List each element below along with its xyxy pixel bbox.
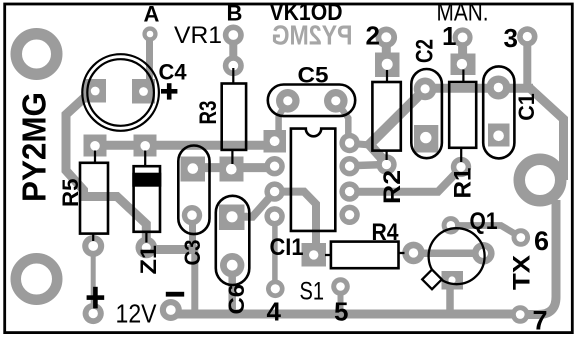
wire R4 right to Q1 collector xyxy=(414,249,484,257)
mounting hole top-left xyxy=(16,34,57,75)
pad C1 top xyxy=(486,76,510,100)
pad R3 top xyxy=(223,55,244,76)
svg-text:5: 5 xyxy=(334,297,348,327)
svg-text:C6: C6 xyxy=(224,284,249,315)
pad R4 right xyxy=(402,242,425,265)
resistor R2 outline xyxy=(372,82,400,151)
pad node A xyxy=(142,26,157,41)
wire node 3 to right rail xyxy=(530,88,564,180)
wire R5 bottom to plus pad xyxy=(91,246,96,314)
pad C3 top (square) xyxy=(181,157,206,182)
wire right rail to pad 7 xyxy=(521,200,556,315)
label plus symbol 12V xyxy=(87,295,105,300)
pad C3 bottom xyxy=(182,205,202,225)
pad C5 left xyxy=(276,89,300,113)
pad C4 minus (square) xyxy=(84,79,107,103)
pad R2 bottom xyxy=(376,154,396,174)
wire C2 top to R2 bottom pad xyxy=(370,90,425,164)
pad below 2 / R2 top (square) xyxy=(375,53,400,78)
pad 12V minus xyxy=(160,299,182,321)
label R3 xyxy=(195,101,222,125)
transistor Q1 outline xyxy=(429,228,485,284)
svg-text:12V: 12V xyxy=(116,299,158,329)
wire pad 3 down xyxy=(523,37,531,88)
svg-text:Z1: Z1 xyxy=(136,245,161,275)
pad 12V plus xyxy=(83,303,104,324)
pad Q1 base xyxy=(442,216,460,234)
mounting hole bottom-left xyxy=(16,258,58,300)
zener diode Z1 cathode band xyxy=(134,174,160,185)
wire ground bus xyxy=(171,310,520,319)
wire IC pin4 to pad 4 xyxy=(272,216,278,288)
wire pad 1 to R1 top pad xyxy=(458,37,467,56)
resistor R5 outline xyxy=(80,163,108,234)
capacitor C5 outline xyxy=(268,85,355,117)
pad C6 top (square) xyxy=(219,205,245,231)
svg-text:R1: R1 xyxy=(450,168,477,199)
IC CI1 outline with pin1 notch xyxy=(291,129,335,231)
pad node 7 xyxy=(511,305,530,324)
wire IC pin7 to R2 bottom xyxy=(350,165,387,166)
capacitor C6 outline xyxy=(216,196,250,285)
pad IC pin7 xyxy=(339,156,359,176)
pad Q1 emitter (square) xyxy=(442,271,464,290)
pad IC pin8 xyxy=(339,133,359,153)
wire pad 5 to ground bus xyxy=(338,287,344,311)
pad C2 top xyxy=(414,78,437,101)
wire C4 minus to Z1 bottom xyxy=(66,93,146,248)
capacitor C4 outline xyxy=(82,54,159,131)
svg-text:A: A xyxy=(144,2,160,27)
label plus symbol C4 xyxy=(161,89,177,94)
pad Q1 collector xyxy=(472,242,495,265)
svg-text:3: 3 xyxy=(504,23,518,53)
pad node 3 xyxy=(517,26,537,46)
svg-text:C3: C3 xyxy=(180,240,205,266)
label minus symbol xyxy=(166,292,184,297)
pad R3 bottom (square) xyxy=(220,157,244,182)
pad IC pin6 xyxy=(339,181,359,201)
label C6 xyxy=(224,284,249,315)
resistor R3 outline xyxy=(222,84,246,150)
pad C5 right xyxy=(324,89,348,113)
pad R5 top (square) xyxy=(84,135,107,157)
svg-text:Q1: Q1 xyxy=(470,208,498,235)
pad IC pin3 xyxy=(264,181,284,201)
pad IC pin1 (square) xyxy=(264,130,287,153)
pad C4 plus (square) xyxy=(132,79,155,104)
wire C2 top to C1 top to node 3 xyxy=(424,84,533,93)
pad C1 bottom (square) xyxy=(488,124,510,147)
wire C6 top to IC pin5 xyxy=(240,193,274,217)
svg-text:1: 1 xyxy=(442,21,456,51)
svg-text:4: 4 xyxy=(267,297,282,327)
pad node 2 xyxy=(376,27,398,49)
svg-text:7: 7 xyxy=(533,305,548,335)
pad IC pin2 xyxy=(264,156,284,176)
zener diode Z1 outline xyxy=(134,166,160,232)
label R1 xyxy=(450,168,477,199)
capacitor C3 outline xyxy=(178,146,209,235)
svg-text:VR1: VR1 xyxy=(174,22,222,49)
svg-text:CI1: CI1 xyxy=(270,234,304,261)
svg-text:6: 6 xyxy=(534,226,549,256)
pad node 1 xyxy=(453,27,473,47)
wire C3 bottom to ground bus xyxy=(193,215,195,314)
wire C5 right to IC pin8 xyxy=(336,101,349,142)
label TX xyxy=(509,255,536,290)
pad below 1 / R1 top (square) xyxy=(451,54,476,76)
resistor R4 outline xyxy=(331,242,399,269)
pad R4 left (square) xyxy=(302,243,327,267)
svg-text:R2: R2 xyxy=(379,170,406,204)
wire IC pin6 to R1 bottom xyxy=(350,168,461,192)
svg-text:PY2MG: PY2MG xyxy=(16,92,53,202)
wire A to C4 plus pad xyxy=(146,34,153,84)
wire C5 left to IC pin1 xyxy=(279,101,288,140)
svg-text:C2: C2 xyxy=(412,39,439,63)
wire Q1 emitter to ground bus xyxy=(446,283,454,313)
resistor R1 outline xyxy=(449,82,476,148)
pad node 5 S1 xyxy=(331,277,350,296)
label R2 xyxy=(379,170,406,204)
svg-text:C5: C5 xyxy=(298,63,329,88)
pad node B xyxy=(223,25,244,46)
pad Z1 bottom xyxy=(136,237,158,259)
pad R1 bottom xyxy=(451,157,471,177)
wire IC pin5 to R4 left xyxy=(275,192,316,254)
capacitor C1 outline xyxy=(483,66,514,158)
label R5 xyxy=(58,179,83,208)
svg-text:TX: TX xyxy=(509,255,536,290)
pad C2 bottom (square) xyxy=(414,125,438,153)
wire C3 top R3 bottom to IC pin2 xyxy=(193,163,274,172)
pad R5 bottom xyxy=(82,235,104,257)
svg-text:S1: S1 xyxy=(300,278,325,306)
wire Z1 bottom to ground via xyxy=(146,245,195,254)
svg-text:R3: R3 xyxy=(195,101,222,125)
pad Z1 top (square) xyxy=(134,135,157,157)
svg-text:R5: R5 xyxy=(58,179,83,208)
wire C6 bottom to ground bus xyxy=(228,265,236,313)
label PY2MG silkscreen xyxy=(16,92,53,202)
svg-text:2: 2 xyxy=(366,20,380,50)
label C3 xyxy=(180,240,205,266)
wire trunk R5 Z1 to IC pin1 xyxy=(95,141,274,150)
svg-text:C1: C1 xyxy=(514,93,539,121)
wire Q1 base to pad 6 xyxy=(451,226,521,238)
label C2 xyxy=(412,39,439,63)
svg-text:B: B xyxy=(227,1,243,26)
wire IC pin8 stub xyxy=(350,143,370,145)
transistor Q1 tab marker xyxy=(422,270,442,290)
wire pad 2 to R2 top pad xyxy=(382,37,391,56)
svg-text:R4: R4 xyxy=(372,219,400,246)
wire B to R3 top pad xyxy=(229,35,237,66)
label C1 xyxy=(514,93,539,121)
pad node 4 xyxy=(266,280,285,299)
pad node 6 xyxy=(512,228,531,247)
svg-text:VK1OD: VK1OD xyxy=(270,0,343,26)
label Z1 xyxy=(136,245,161,275)
pad C6 bottom xyxy=(220,253,244,277)
copper-side mirrored PY2MG text xyxy=(272,20,353,51)
capacitor C2 outline xyxy=(411,69,442,158)
pad IC pin4 xyxy=(264,206,284,226)
pad IC pin5 xyxy=(339,205,359,225)
svg-text:C4: C4 xyxy=(159,59,188,84)
mounting hole right xyxy=(519,159,561,201)
